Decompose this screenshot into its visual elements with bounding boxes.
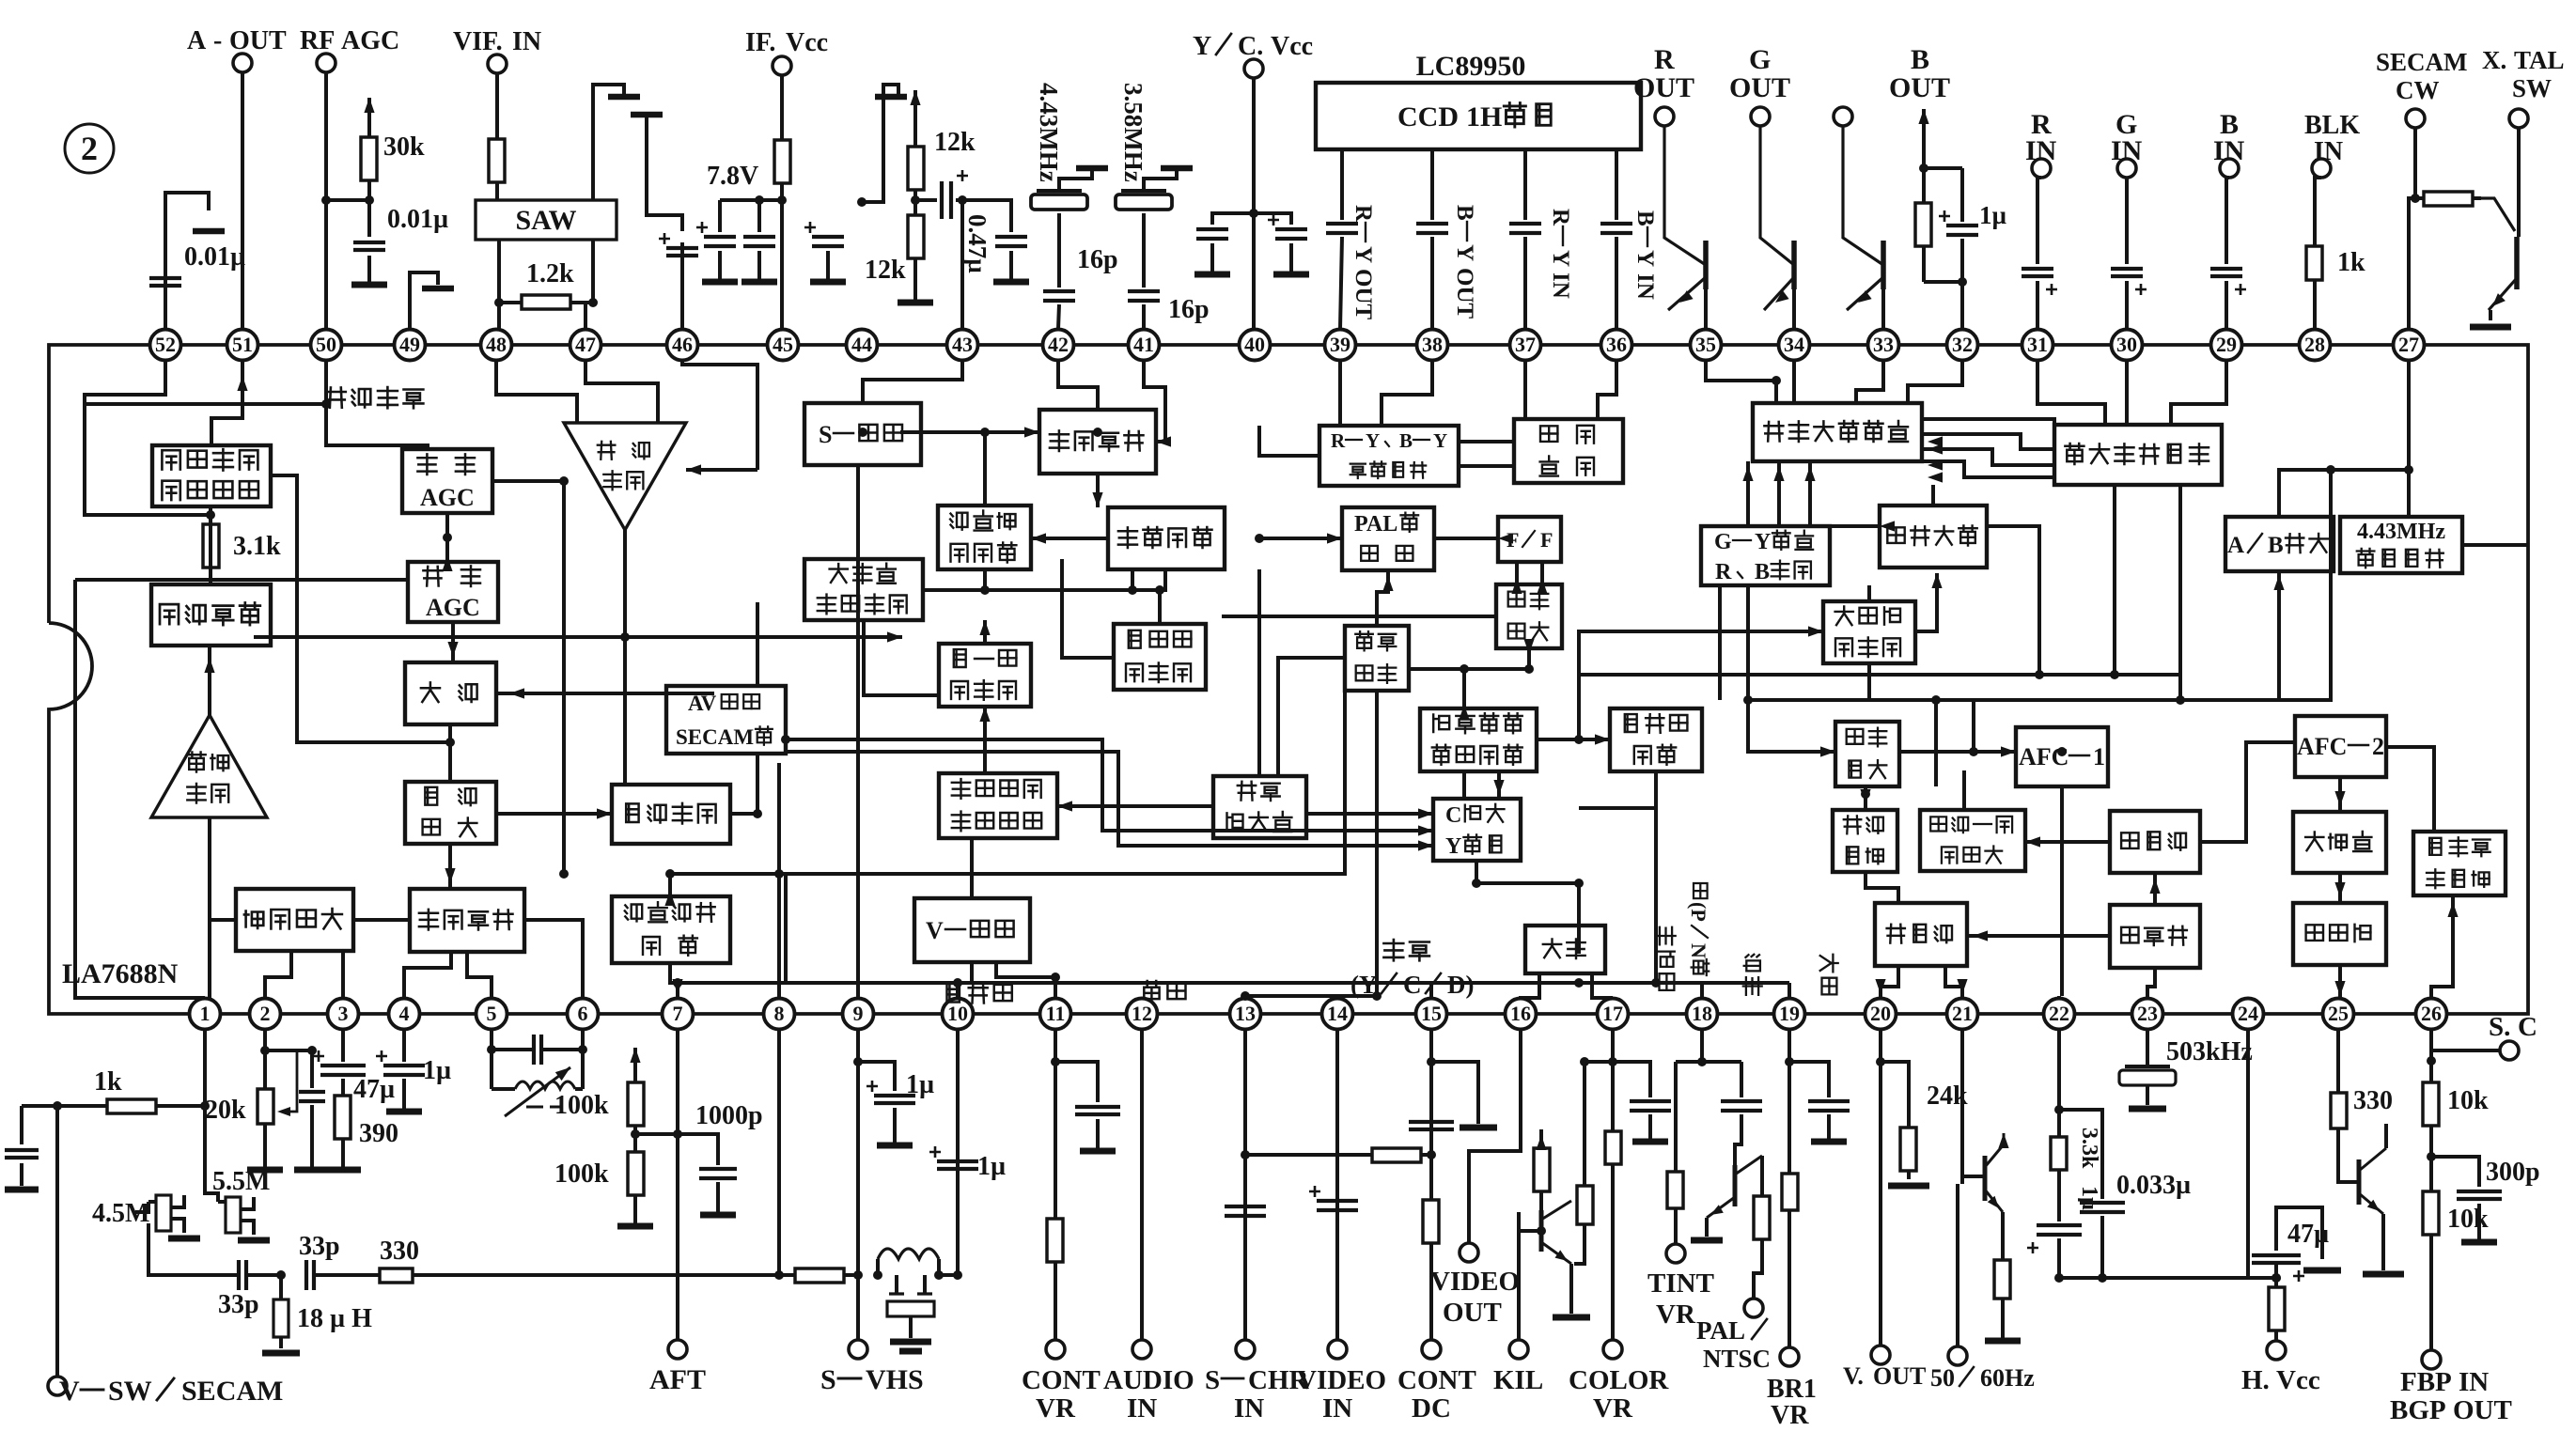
wire pin22 branch: [2059, 1110, 2102, 1199]
ground (20k): [247, 1128, 283, 1170]
wire CCD pin39 + capacitor: [1326, 149, 1358, 329]
pin 29: [2211, 330, 2242, 361]
svg-text:30: 30: [2116, 333, 2137, 356]
wire pin21 down: [1960, 1030, 1964, 1124]
junction: [620, 632, 630, 642]
pin 20: [1866, 999, 1897, 1030]
wire SAW right top: [593, 85, 624, 200]
resistor PAL/NTSC base: [1754, 1156, 1770, 1299]
resistor VIF series: [489, 120, 505, 200]
wire 同步分离 left input: [1748, 700, 1835, 752]
ceramic filter 5.5M: [212, 1167, 270, 1240]
svg-text:42: 42: [1048, 333, 1069, 356]
svg-text:16p: 16p: [1077, 245, 1118, 274]
svg-text:330: 330: [2353, 1086, 2393, 1115]
junction: [980, 428, 990, 437]
svg-text:RF: RF: [300, 26, 335, 55]
wire 解调输出 to 钳位 b: [1459, 464, 1514, 468]
capacitor 0.01u (RF AGC): [353, 200, 448, 250]
wire 行分频 right AFC2: [2200, 742, 2295, 842]
block 行激励: [2293, 903, 2386, 965]
transistor emitter follower at pin 2004: [1847, 241, 1883, 329]
svg-text:20k: 20k: [205, 1096, 246, 1125]
wire IF apex down: [623, 530, 627, 637]
transistor 50/60Hz: [1962, 1124, 2009, 1212]
wire long bus y678: [254, 635, 902, 639]
wire F/F down 同步检波 a: [1515, 562, 1519, 584]
svg-text:30k: 30k: [383, 132, 425, 162]
block 色调控制: [1108, 507, 1225, 569]
svg-text:Y: Y: [1632, 250, 1658, 267]
svg-text:Vcc: Vcc: [2276, 1365, 2320, 1395]
capacitor 7.8V a: [696, 200, 738, 282]
resistor pin15: [1423, 1193, 1439, 1250]
wire 消色器 right link: [923, 568, 1165, 590]
terminal H.Vcc: [2241, 1341, 2320, 1395]
terminal aux OUT (pin 2004): [1834, 107, 1883, 265]
capacitor 0.47u series: [942, 170, 968, 219]
capacitor pin 44 bypass: [804, 222, 846, 282]
wire 伴音 right output: [271, 475, 450, 742]
arrowhead 视频检波 dn: [445, 868, 455, 883]
pin 23: [2132, 999, 2163, 1030]
arrowhead 晶振 up: [1382, 576, 1393, 591]
svg-text:B: B: [1399, 429, 1413, 452]
arrowhead 第一带通 up: [979, 620, 990, 635]
junction: [1574, 735, 1584, 744]
junction: [2326, 465, 2335, 475]
ground (pin44 step): [875, 94, 907, 101]
resistor 10k lower: [2423, 1182, 2489, 1245]
arrowhead 基色 in a: [1928, 436, 1943, 446]
pin 43: [947, 330, 978, 361]
wire 基色 top pin33: [1856, 361, 1883, 403]
terminal S-VHS: [820, 1340, 924, 1395]
block V—开关: [914, 898, 1030, 962]
resistor KIL right: [1574, 1062, 1593, 1264]
capacitor pin15 a: [1409, 1122, 1454, 1129]
junction: [1743, 695, 1753, 705]
figure number 2: [65, 124, 114, 173]
pin 50: [311, 330, 342, 361]
resistor 12k lower: [865, 200, 924, 285]
arrowhead 场频 down: [1860, 789, 1870, 804]
svg-text:IN: IN: [1127, 1393, 1157, 1424]
wire 同步分离 to AFC-1: [1899, 750, 2016, 754]
wire 色调控制 left 自动相位: [1031, 537, 1108, 540]
arrowhead 场分频 in: [1973, 930, 1988, 941]
arrowhead VCO right in: [1156, 436, 1171, 446]
wire 相位检波-压控振荡 link: [353, 918, 410, 922]
capacitor 1000p: [678, 1101, 763, 1215]
wire 屏幕 top pin29: [2171, 361, 2226, 425]
wire Y/C.Vcc to pin 40: [1249, 78, 1258, 329]
svg-text:IN: IN: [512, 27, 541, 56]
svg-text:Vcc: Vcc: [786, 28, 828, 57]
wire 限幅放大 input: [208, 817, 211, 998]
wire pin1 down: [205, 1030, 218, 1202]
svg-text:27: 27: [2398, 333, 2419, 356]
svg-text:N: N: [1687, 943, 1710, 958]
capacitor 1u (pin10): [929, 1146, 1006, 1181]
junction: [2176, 695, 2185, 705]
wire pin19 node: [1785, 1030, 1794, 1347]
resistor H.Vcc: [2269, 1273, 2285, 1341]
wire G-Y to 基色 b: [1777, 479, 1781, 526]
arrowhead A/B up: [2273, 575, 2284, 590]
arrowhead AFC2 down: [2334, 791, 2345, 806]
wire 钳位 top pin36: [1598, 361, 1616, 419]
wire SAW right to pin 47: [585, 240, 598, 329]
svg-text:24: 24: [2238, 1002, 2258, 1025]
block 同步检波: [1496, 584, 1562, 648]
wire 行场消隐 top: [1931, 485, 1935, 506]
ceramic resonator S-VHS: [887, 1275, 934, 1351]
terminal R IN: [2025, 109, 2057, 178]
wire pin5 tank: [487, 1030, 496, 1089]
pin 33: [1868, 330, 1899, 361]
terminal COLOR VR: [1569, 1340, 1669, 1424]
junction: [559, 869, 569, 879]
svg-text:38: 38: [1422, 333, 1443, 356]
svg-text:VR: VR: [1771, 1401, 1809, 1430]
pin 8: [764, 999, 795, 1030]
wire filters to 33p bus: [148, 1223, 237, 1275]
svg-text:AFC: AFC: [2297, 733, 2347, 760]
wire IF triangle right input: [686, 468, 757, 472]
pin 46: [667, 330, 698, 361]
arrowhead 基色 in d: [1928, 472, 1943, 482]
wire pin24 down: [2246, 1030, 2250, 1278]
block 屏幕显示输入: [2054, 425, 2222, 485]
capacitor Y/C b: [1254, 213, 1309, 274]
terminal VIDEO OUT: [1430, 1243, 1520, 1328]
resistor 1.2k: [499, 259, 593, 309]
svg-text:C.: C.: [1238, 32, 1263, 61]
svg-text:X.: X.: [2482, 46, 2506, 74]
svg-text:FBP: FBP: [2400, 1367, 2452, 1397]
pin 5: [476, 999, 507, 1030]
wire pin20 node: [1876, 1030, 1885, 1346]
capacitor 33p b: [299, 1232, 340, 1290]
label LC89950: [1416, 51, 1526, 82]
wire VCO down 色调控制: [1096, 474, 1100, 507]
svg-text:12k: 12k: [865, 256, 906, 285]
capacitor 47u: [313, 1030, 395, 1104]
svg-text:OUT: OUT: [1729, 72, 1790, 103]
terminal X.TAL SW: [2482, 46, 2565, 128]
wire 高放AGC right bus: [492, 481, 564, 874]
svg-text:B: B: [1632, 210, 1658, 226]
wire bus AV-SECAM right: [786, 739, 1344, 831]
wire 场分频 down pin21: [1945, 966, 1962, 998]
svg-text:40: 40: [1244, 333, 1265, 356]
wire pin12 down: [1140, 1030, 1144, 1340]
svg-text:OUT: OUT: [1873, 1362, 1926, 1390]
pin 9: [843, 999, 874, 1030]
svg-text:SW: SW: [108, 1376, 152, 1407]
amplifier 限幅放大 triangle: [151, 715, 267, 817]
block 压控振荡 (top): [1039, 410, 1156, 474]
ceramic filter 4.5M: [92, 1195, 200, 1238]
wire pin16 down: [1469, 1030, 1521, 1243]
ground (pin46 step): [631, 112, 663, 118]
junction: [1051, 972, 1060, 982]
wire 自动相位 up: [983, 432, 987, 506]
svg-text:21: 21: [1952, 1002, 1973, 1025]
wire F/F down 同步检波 b: [1540, 562, 1544, 584]
block PAL制开关: [1342, 507, 1434, 570]
arrowhead into 对比度控制: [1595, 734, 1610, 744]
wire resistor to transistor: [2481, 198, 2515, 231]
svg-text:IN: IN: [1322, 1393, 1352, 1424]
pin 3: [328, 999, 359, 1030]
node pin1 1k: [200, 1101, 210, 1111]
block 伴音放大/伴音开关: [152, 445, 271, 506]
junction: [1128, 585, 1137, 595]
svg-text:SECAM: SECAM: [181, 1376, 283, 1407]
pin 41: [1129, 330, 1160, 361]
wire CCD pin36 + capacitor: [1600, 149, 1632, 329]
svg-text:9: 9: [853, 1002, 864, 1025]
svg-text:IF.: IF.: [745, 28, 775, 57]
wire 逆程 down pin26: [2431, 895, 2453, 998]
svg-text:CW: CW: [2396, 76, 2440, 104]
wire 行振荡 left 场分频: [1967, 934, 2110, 938]
svg-text:Y: Y: [1193, 32, 1211, 61]
svg-text:CCD: CCD: [1397, 101, 1459, 132]
svg-text:503kHz: 503kHz: [2166, 1037, 2253, 1066]
svg-text:330: 330: [380, 1237, 419, 1266]
resistor 3.3k: [2051, 1128, 2101, 1174]
block 行场消隐: [1880, 506, 1987, 568]
wire RF AGC to pin 50: [324, 72, 328, 329]
wire AFC2 A/B bus link: [2279, 571, 2331, 700]
arrowhead 移相器 down: [2334, 882, 2345, 897]
capacitor pin13: [1225, 1206, 1266, 1216]
svg-text:31: 31: [2027, 333, 2048, 356]
block 鉴频解调: [151, 584, 271, 646]
block 钳位低通: [1514, 419, 1623, 483]
wire bus y930 long: [786, 691, 1345, 874]
block 视频放大: [612, 785, 730, 844]
wire G-Y up verticals: [1746, 461, 1750, 479]
wire A-OUT to pin 51: [241, 72, 244, 329]
CCD 1H delay box: [1316, 83, 1641, 149]
svg-text:46: 46: [672, 333, 693, 356]
arrowhead into 色调-自相: [1031, 533, 1046, 543]
block 白峰限制锐度控制: [1420, 708, 1537, 771]
svg-text:17: 17: [1602, 1002, 1623, 1025]
svg-text:25: 25: [2328, 1002, 2349, 1025]
svg-text:18 µ H: 18 µ H: [297, 1304, 372, 1333]
wire C滤波 down: [1476, 861, 1579, 954]
svg-text:20: 20: [1870, 1002, 1891, 1025]
svg-text:B: B: [1755, 560, 1770, 584]
svg-text:IN: IN: [2025, 135, 2057, 166]
capacitor pin11 branch: [1055, 1062, 1120, 1151]
block 压控振荡 (left): [410, 889, 524, 952]
wire 第二带通 left link: [1062, 559, 1114, 658]
wire 屏幕 top pin30: [2125, 361, 2129, 425]
wire pin17 cap branch: [1613, 1062, 1671, 1142]
wire 对比度-G-Y vertical a: [1718, 585, 1722, 700]
svg-text:3.58MHz: 3.58MHz: [1119, 83, 1147, 182]
wire pin10 down: [956, 1030, 960, 1275]
resistor 3.1k: [203, 506, 281, 584]
svg-text:32: 32: [1952, 333, 1973, 356]
wire pin25 down: [2336, 1030, 2340, 1089]
wire AFC2 down 移相器: [2338, 777, 2342, 812]
block 消噪: [405, 662, 496, 724]
arrowhead 同步检波 dn: [1523, 639, 1534, 654]
wire 基色-屏幕 link d: [1922, 461, 2054, 477]
wire pin14 up: [1335, 996, 1339, 998]
svg-text:R: R: [1331, 429, 1346, 452]
svg-text:49: 49: [399, 333, 420, 356]
wire IF triangle top-left: [496, 361, 577, 423]
block R-Y B-Y 解调输出: [1319, 426, 1459, 486]
block 消色: [1525, 926, 1605, 973]
arrowhead IF in: [686, 464, 701, 475]
svg-text:Y: Y: [1452, 244, 1477, 261]
wire 行激励 down pin25: [2338, 965, 2342, 998]
wire 伴音 to resistor: [209, 506, 212, 584]
svg-text:TINT: TINT: [1647, 1268, 1714, 1299]
arrowhead 基色 in c: [1928, 459, 1943, 470]
svg-text:-: -: [213, 26, 222, 55]
svg-text:48: 48: [486, 333, 507, 356]
resistor 30k: [361, 98, 425, 200]
arrowhead PAL left: [1327, 533, 1342, 543]
wire pin15 top branch: [1431, 1062, 1478, 1124]
svg-text:22: 22: [2049, 1002, 2069, 1025]
arrowhead 逆程 up: [2447, 902, 2458, 917]
ground (RF AGC cap): [351, 256, 387, 285]
svg-text:PAL: PAL: [1354, 512, 1397, 537]
block 高放AGC: [402, 449, 492, 513]
wire 场分频 down pin20: [1881, 966, 1898, 998]
capacitor 1u pin32: [1939, 168, 2007, 282]
wire 行振荡 down pin23: [2147, 968, 2155, 998]
svg-text:Y: Y: [1548, 250, 1573, 267]
svg-text:PAL: PAL: [1696, 1316, 1745, 1345]
svg-text:1k: 1k: [94, 1067, 122, 1097]
wire G-Y to 基色 c: [1808, 479, 1812, 526]
wire SAW left to pin 48: [494, 240, 504, 329]
resistor 50/60 emitter: [1985, 1212, 2021, 1341]
svg-text:47: 47: [575, 333, 596, 356]
terminal VIDEO IN: [1297, 1340, 1386, 1424]
svg-text:100k: 100k: [554, 1159, 609, 1189]
resistor BR1: [1782, 1170, 1798, 1214]
terminal RF AGC: [300, 26, 399, 72]
terminal VIF.IN: [453, 27, 541, 73]
wire pin22 up: [2057, 996, 2061, 998]
junction: [2404, 465, 2413, 475]
arrowhead FF up b: [1537, 579, 1547, 594]
svg-text:8: 8: [774, 1002, 785, 1025]
wire C滤波 inputs a: [1306, 812, 1433, 816]
capacitor 300p: [2431, 1157, 2540, 1242]
pin 13: [1230, 999, 1261, 1030]
svg-text:10k: 10k: [2447, 1086, 2489, 1115]
svg-text:300p: 300p: [2486, 1158, 2540, 1187]
svg-text:IN: IN: [1548, 272, 1573, 299]
pin 45: [768, 330, 799, 361]
junction: [1651, 978, 1661, 988]
block 基色合成矩阵: [1753, 403, 1922, 461]
wire 晶振同步 left input: [1278, 658, 1345, 776]
IC LA7688N body outline: [49, 345, 2528, 1014]
wire+capacitor G IN to pin 30: [2111, 178, 2147, 329]
svg-text:34: 34: [1784, 333, 1804, 356]
pin 25: [2323, 999, 2354, 1030]
svg-text:39: 39: [1330, 333, 1350, 356]
arrowhead 行分频-行频: [2025, 836, 2040, 847]
wire SECAM to pin 27: [2409, 128, 2420, 329]
svg-text:0.47µ: 0.47µ: [963, 214, 991, 273]
terminal AFT: [649, 1340, 706, 1395]
svg-text:C: C: [1445, 803, 1461, 828]
svg-text:12k: 12k: [934, 128, 976, 157]
ground (pin15 branch): [1460, 1125, 1497, 1131]
svg-text:B: B: [1911, 44, 1929, 75]
wire 中放AGC down: [451, 622, 455, 662]
block 色度带通色度开关: [939, 773, 1057, 838]
resistor pin11: [1047, 1212, 1063, 1268]
wire 解调输出 left input: [1259, 426, 1319, 456]
svg-text:41: 41: [1133, 333, 1154, 356]
ground (SAW top step): [608, 94, 640, 101]
svg-text:G: G: [1714, 530, 1732, 554]
resistor TINT: [1667, 1062, 1683, 1244]
svg-text:Y: Y: [1445, 834, 1461, 859]
resistor 1k (BLK): [2306, 178, 2365, 329]
capacitor 0.033u: [2080, 1171, 2191, 1278]
junction: [774, 869, 784, 879]
arrowhead into 消噪: [509, 688, 524, 698]
arrowhead 基色 in b: [1928, 443, 1943, 454]
wire long bus y718: [1579, 673, 2180, 677]
svg-text:29: 29: [2216, 333, 2237, 356]
wire VCO top to pin42: [1058, 361, 1098, 410]
pin 32: [1947, 330, 1978, 361]
capacitor 16p (4.43): [1043, 213, 1118, 329]
terminal A-OUT: [187, 26, 287, 72]
arrowhead 行振荡 up: [2149, 879, 2160, 894]
IC name label LA7688N: [62, 958, 179, 989]
wire 校正滤波器 up: [1257, 569, 1261, 776]
pin 27: [2394, 330, 2425, 361]
block 自动频率控制: [612, 896, 730, 963]
svg-text:VIDEO: VIDEO: [1430, 1267, 1520, 1297]
wire 晶振同步 up PAL: [1377, 570, 1388, 626]
block 视频检波: [405, 782, 496, 844]
block 自动相位控制: [938, 506, 1031, 569]
wire long bus y745: [1748, 698, 2279, 702]
block 亮度受控放大: [1823, 601, 1915, 663]
svg-text:1µ: 1µ: [906, 1070, 934, 1099]
arrowhead G-Y up c: [1804, 466, 1815, 481]
svg-text:47µ: 47µ: [2287, 1220, 2329, 1249]
svg-text:COLOR: COLOR: [1569, 1365, 1669, 1395]
block 第一带通放大: [939, 644, 1031, 707]
resistor 10k upper: [2423, 1076, 2489, 1132]
junction: [1093, 428, 1102, 437]
wire 视频检波 to 视频放大: [496, 812, 612, 816]
wire C滤波 inputs b: [1344, 829, 1433, 832]
